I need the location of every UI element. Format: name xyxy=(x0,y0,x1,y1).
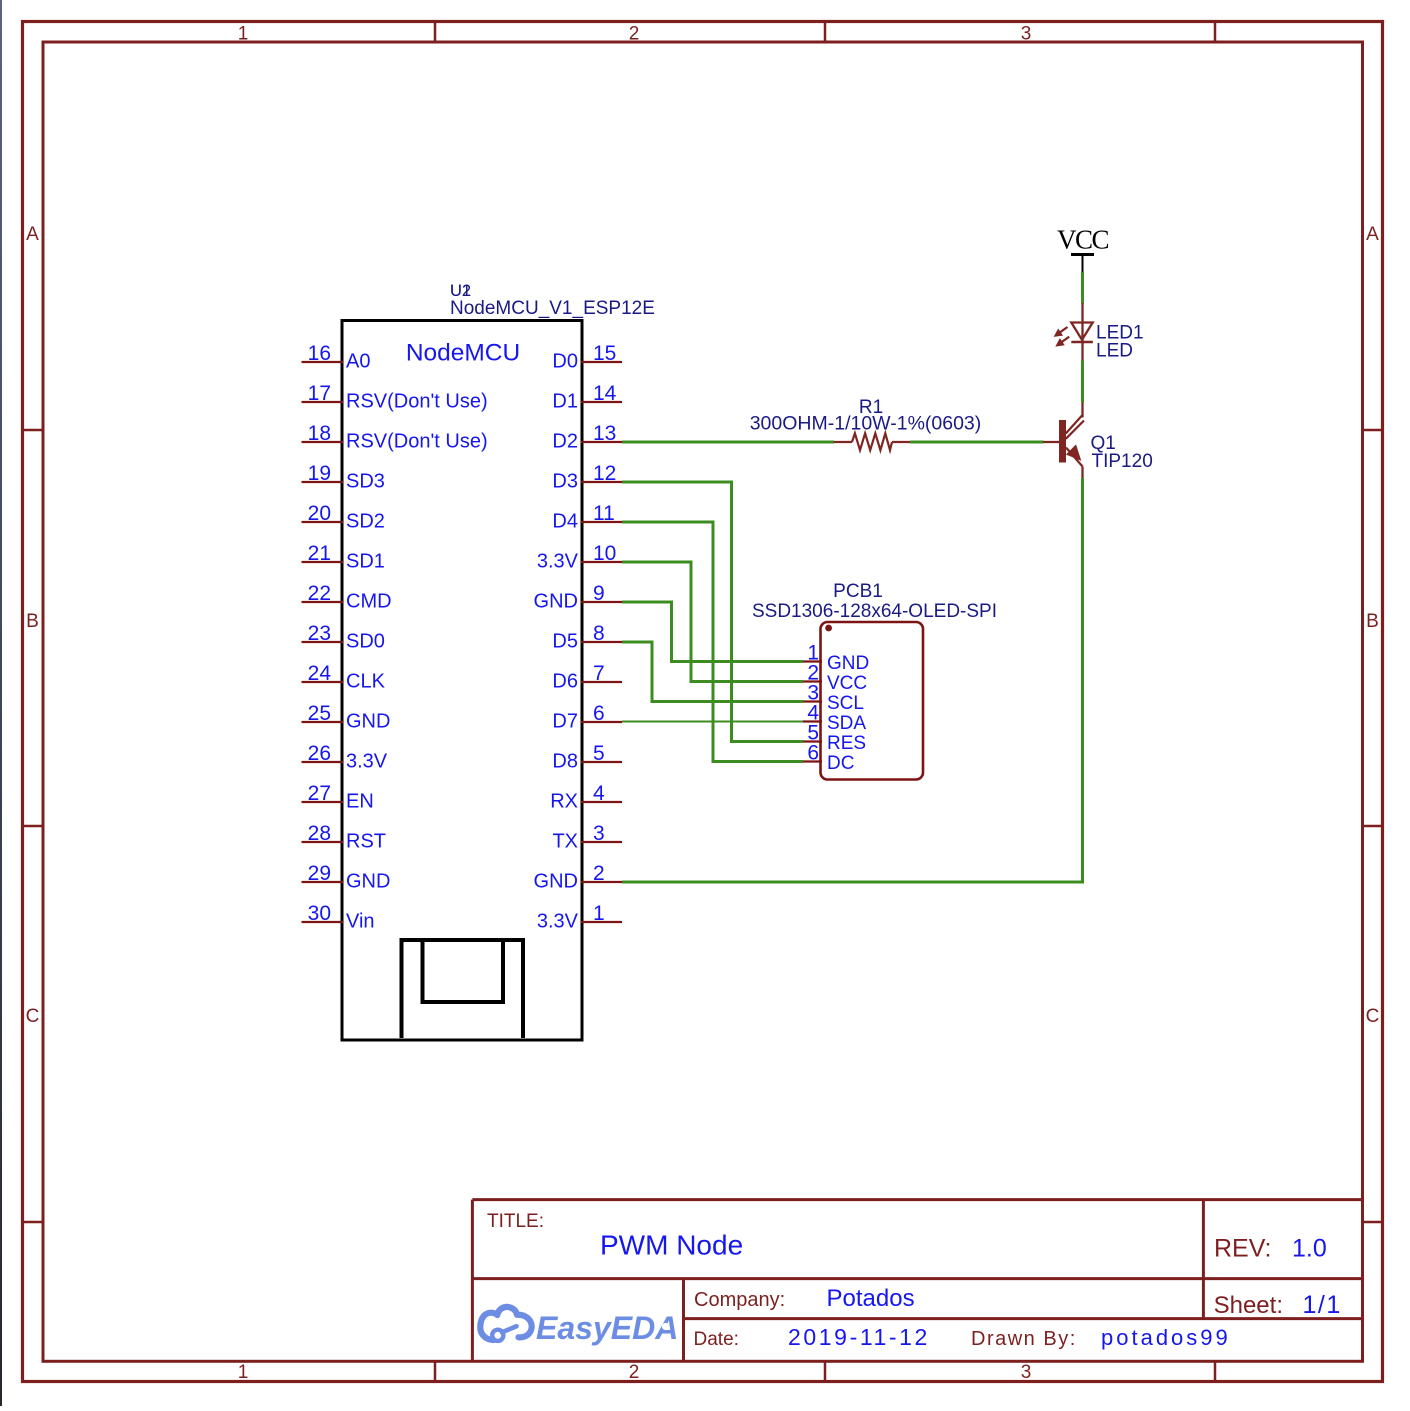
svg-text:7: 7 xyxy=(593,662,605,685)
svg-text:15: 15 xyxy=(593,342,616,365)
wire LED1 cathode to Q1 collector xyxy=(1081,360,1084,402)
U2 pin 26 3.3V xyxy=(302,742,388,773)
svg-text:NodeMCU_V1_ESP12E: NodeMCU_V1_ESP12E xyxy=(450,298,655,319)
U2 pin 13 D2 xyxy=(552,422,622,453)
svg-text:29: 29 xyxy=(308,862,331,885)
svg-text:17: 17 xyxy=(308,382,331,405)
svg-text:10: 10 xyxy=(593,542,616,565)
svg-text:21: 21 xyxy=(308,542,331,565)
svg-text:6: 6 xyxy=(807,742,819,765)
svg-text:3: 3 xyxy=(1021,1362,1032,1383)
wire R1 to Q1 base xyxy=(910,441,1044,444)
transistor Q1 TIP120 xyxy=(1043,403,1084,479)
U2 pin 6 D7 xyxy=(552,702,622,733)
svg-text:PWM Node: PWM Node xyxy=(600,1230,743,1261)
svg-text:Company:: Company: xyxy=(694,1289,785,1311)
svg-text:SD3: SD3 xyxy=(346,471,385,493)
svg-text:CMD: CMD xyxy=(346,591,392,613)
R1 labels 300OHM-1/10W-1%(0603) xyxy=(750,397,982,435)
svg-text:27: 27 xyxy=(308,782,331,805)
svg-text:D7: D7 xyxy=(552,711,578,733)
svg-text:18: 18 xyxy=(308,422,331,445)
svg-text:B: B xyxy=(26,611,39,632)
svg-text:11: 11 xyxy=(593,502,615,525)
svg-text:Date:: Date: xyxy=(694,1329,739,1350)
svg-text:SCL: SCL xyxy=(827,693,864,714)
svg-text:REV:: REV: xyxy=(1214,1234,1271,1262)
svg-text:GND: GND xyxy=(534,871,578,893)
Q1 labels TIP120 xyxy=(1091,433,1153,472)
svg-text:30: 30 xyxy=(308,902,331,925)
svg-text:DC: DC xyxy=(827,753,854,774)
svg-text:3.3V: 3.3V xyxy=(537,911,579,933)
wire U2 D3 (pin 12) to PCB1 RES xyxy=(622,482,803,742)
svg-text:RSV(Don't Use): RSV(Don't Use) xyxy=(346,431,488,453)
svg-text:1: 1 xyxy=(238,24,249,45)
wire U2 D5 (pin 8) to PCB1 SCL xyxy=(622,642,803,702)
svg-text:Potados: Potados xyxy=(827,1285,915,1312)
svg-text:D0: D0 xyxy=(552,351,578,373)
wire U2 GND (pin 2) to Q1 emitter xyxy=(622,478,1083,882)
U2 pin 23 SD0 xyxy=(302,622,385,653)
svg-text:2: 2 xyxy=(629,24,640,45)
svg-text:24: 24 xyxy=(308,662,332,685)
svg-text:PCB1: PCB1 xyxy=(833,581,883,602)
U2 pin 17 RSV(Don't Use) xyxy=(302,382,488,413)
svg-text:SD1: SD1 xyxy=(346,551,385,573)
svg-text:1: 1 xyxy=(593,902,605,925)
svg-text:A: A xyxy=(1366,224,1379,245)
U2 pin 9 GND xyxy=(534,582,622,613)
wire U2 D2 (pin 13) to R1 xyxy=(622,441,834,444)
svg-text:SDA: SDA xyxy=(827,713,866,734)
svg-text:2019-11-12: 2019-11-12 xyxy=(788,1324,930,1350)
U2 pin 2 GND xyxy=(534,862,622,893)
svg-text:D6: D6 xyxy=(552,671,578,693)
U2 pin 1 3.3V xyxy=(537,902,622,933)
U2 pin 20 SD2 xyxy=(302,502,385,533)
svg-text:Vin: Vin xyxy=(346,911,375,933)
svg-text:SD0: SD0 xyxy=(346,631,385,653)
svg-text:22: 22 xyxy=(308,582,331,605)
PCB1 pin 5 RES xyxy=(803,722,867,755)
svg-text:SD2: SD2 xyxy=(346,511,385,533)
power flag VCC xyxy=(1057,225,1109,273)
svg-text:5: 5 xyxy=(593,742,605,765)
svg-text:6: 6 xyxy=(593,702,605,725)
U2 pin 30 Vin xyxy=(302,902,375,933)
svg-text:1.0: 1.0 xyxy=(1292,1234,1327,1262)
svg-text:A: A xyxy=(26,224,39,245)
U2 pin 16 A0 xyxy=(302,342,371,373)
svg-text:EN: EN xyxy=(346,791,374,813)
PCB1 pin 3 SCL xyxy=(803,682,864,715)
svg-text:VCC: VCC xyxy=(827,673,867,694)
svg-text:4: 4 xyxy=(593,782,605,805)
svg-text:TX: TX xyxy=(552,831,578,853)
svg-text:GND: GND xyxy=(827,653,869,674)
U2 pin 10 3.3V xyxy=(537,542,622,573)
U2 pin 15 D0 xyxy=(552,342,622,373)
svg-text:28: 28 xyxy=(308,822,331,845)
svg-text:3: 3 xyxy=(593,822,605,845)
U2 pin 25 GND xyxy=(302,702,391,733)
svg-text:D5: D5 xyxy=(552,631,578,653)
IC U2 NodeMCU_V1_ESP12E body xyxy=(342,321,582,1041)
svg-text:26: 26 xyxy=(308,742,331,765)
svg-text:12: 12 xyxy=(593,462,616,485)
svg-text:SSD1306-128x64-OLED-SPI: SSD1306-128x64-OLED-SPI xyxy=(752,601,997,622)
svg-text:A0: A0 xyxy=(346,351,370,373)
svg-text:CLK: CLK xyxy=(346,671,386,693)
U2 pin 3 TX xyxy=(552,822,622,853)
svg-text:TIP120: TIP120 xyxy=(1092,451,1153,472)
PCB1 pin 6 DC xyxy=(803,742,855,775)
svg-text:EasyEDA: EasyEDA xyxy=(536,1310,678,1346)
U2 pin 14 D1 xyxy=(552,382,622,413)
svg-text:RES: RES xyxy=(827,733,866,754)
svg-text:potados99: potados99 xyxy=(1101,1325,1231,1350)
svg-text:2: 2 xyxy=(593,862,605,885)
svg-text:LED: LED xyxy=(1096,341,1133,362)
svg-text:GND: GND xyxy=(346,871,390,893)
wire U2 GND (pin 9) to PCB1 GND xyxy=(622,602,803,662)
svg-text:8: 8 xyxy=(593,622,605,645)
svg-text:1: 1 xyxy=(238,1362,249,1383)
wire VCC to LED1 anode xyxy=(1081,272,1084,304)
svg-text:GND: GND xyxy=(534,591,578,613)
svg-text:3.3V: 3.3V xyxy=(537,551,579,573)
svg-text:D4: D4 xyxy=(552,511,578,533)
svg-text:9: 9 xyxy=(593,582,605,605)
U2 pin 22 CMD xyxy=(302,582,392,613)
svg-text:20: 20 xyxy=(308,502,331,525)
LED LED1 xyxy=(1055,303,1093,361)
U2 pin 28 RST xyxy=(302,822,387,853)
svg-text:1/1: 1/1 xyxy=(1303,1291,1342,1319)
wire U2 3.3V (pin 10) to PCB1 VCC xyxy=(622,562,803,682)
svg-text:D2: D2 xyxy=(552,431,578,453)
U2 pin 24 CLK xyxy=(302,662,386,693)
U2 pin 21 SD1 xyxy=(302,542,385,573)
svg-text:Sheet:: Sheet: xyxy=(1214,1292,1283,1319)
svg-text:16: 16 xyxy=(308,342,331,365)
svg-text:RX: RX xyxy=(550,791,578,813)
PCB1 pin 4 SDA xyxy=(803,702,867,735)
wire U2 D4 (pin 11) to PCB1 DC xyxy=(622,522,803,762)
svg-text:2: 2 xyxy=(629,1362,640,1383)
svg-text:RST: RST xyxy=(346,831,386,853)
svg-text:C: C xyxy=(26,1006,40,1027)
svg-text:300OHM-1/10W-1%(0603): 300OHM-1/10W-1%(0603) xyxy=(750,413,982,435)
svg-text:NodeMCU: NodeMCU xyxy=(406,340,520,367)
U2 pin 5 D8 xyxy=(552,742,622,773)
svg-text:13: 13 xyxy=(593,422,616,445)
U2 pin 19 SD3 xyxy=(302,462,385,493)
PCB1 pin 1 GND xyxy=(803,642,870,675)
PCB1 pin 2 VCC xyxy=(803,662,868,695)
svg-text:D1: D1 xyxy=(552,391,578,413)
svg-text:19: 19 xyxy=(308,462,331,485)
svg-text:3: 3 xyxy=(1021,24,1032,45)
svg-text:D3: D3 xyxy=(552,471,578,493)
svg-text:GND: GND xyxy=(346,711,390,733)
svg-text:Drawn By:: Drawn By: xyxy=(971,1328,1077,1350)
U2 pin 4 RX xyxy=(550,782,622,813)
svg-text:RSV(Don't Use): RSV(Don't Use) xyxy=(346,391,488,413)
U2 reference designator (overlapping U1/U2) xyxy=(450,282,471,300)
U2 pin 29 GND xyxy=(302,862,391,893)
U2 pin 18 RSV(Don't Use) xyxy=(302,422,488,453)
wire U2 D7 (pin 6) to PCB1 SDA xyxy=(622,721,803,723)
svg-text:3.3V: 3.3V xyxy=(346,751,388,773)
svg-text:D8: D8 xyxy=(552,751,578,773)
module PCB1 SSD1306-128x64-OLED-SPI body xyxy=(821,622,924,780)
svg-text:VCC: VCC xyxy=(1057,225,1109,255)
LED1 labels xyxy=(1096,323,1144,362)
svg-text:14: 14 xyxy=(593,382,617,405)
U2 pin 7 D6 xyxy=(552,662,622,693)
U2 pin 8 D5 xyxy=(552,622,622,653)
U2 pin 11 D4 xyxy=(552,502,622,533)
svg-text:25: 25 xyxy=(308,702,331,725)
svg-text:23: 23 xyxy=(308,622,331,645)
svg-text:TITLE:: TITLE: xyxy=(487,1211,544,1232)
svg-text:C: C xyxy=(1366,1006,1380,1027)
svg-text:B: B xyxy=(1366,611,1379,632)
U2 pin 12 D3 xyxy=(552,462,622,493)
resistor R1 xyxy=(834,433,911,450)
U2 pin 27 EN xyxy=(302,782,374,813)
